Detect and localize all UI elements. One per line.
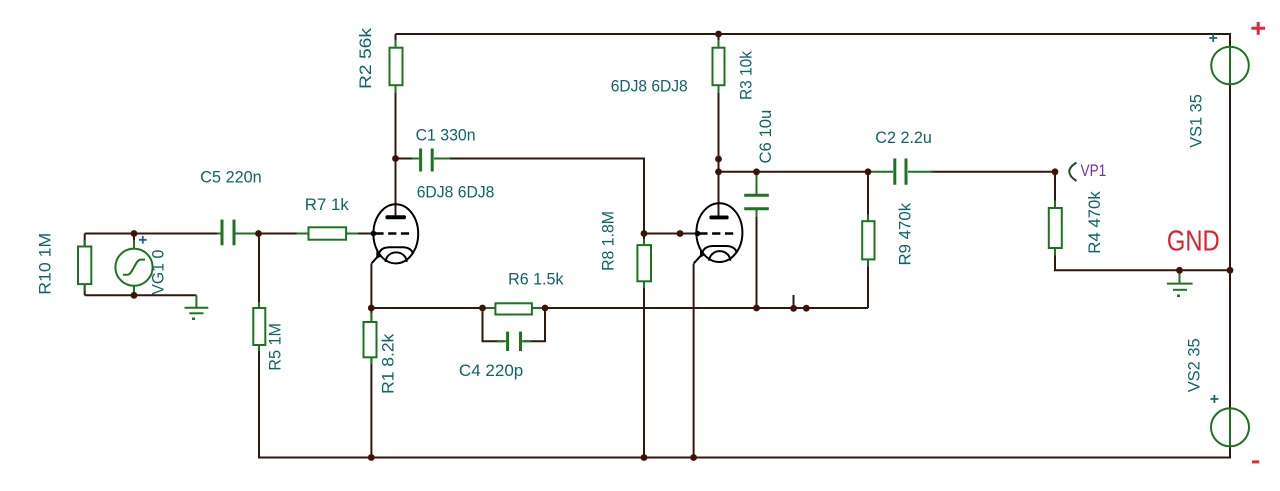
svg-text:C2 2.2u: C2 2.2u: [875, 128, 932, 147]
svg-text:VP1: VP1: [1081, 161, 1107, 180]
svg-text:R7 1k: R7 1k: [305, 195, 349, 214]
svg-text:GND: GND: [1167, 225, 1220, 257]
svg-text:C1 330n: C1 330n: [416, 125, 476, 144]
svg-text:C6 10u: C6 10u: [756, 110, 775, 164]
svg-text:VS2 35: VS2 35: [1185, 338, 1204, 392]
svg-text:C5 220n: C5 220n: [200, 167, 261, 186]
svg-text:R9 470k: R9 470k: [896, 202, 915, 265]
svg-text:R5 1M: R5 1M: [266, 323, 285, 371]
svg-text:R8 1.8M: R8 1.8M: [599, 211, 618, 271]
svg-text:6DJ8 6DJ8: 6DJ8 6DJ8: [417, 182, 495, 201]
svg-text:R6 1.5k: R6 1.5k: [508, 269, 564, 288]
svg-text:VG1 0: VG1 0: [149, 250, 168, 295]
svg-text:R3 10k: R3 10k: [737, 51, 756, 100]
svg-text:VS1 35: VS1 35: [1187, 94, 1206, 148]
svg-text:6DJ8 6DJ8: 6DJ8 6DJ8: [611, 76, 688, 95]
svg-text:R2 56k: R2 56k: [356, 27, 375, 89]
svg-text:C4 220p: C4 220p: [459, 361, 523, 380]
svg-text:R10 1M: R10 1M: [36, 233, 55, 295]
svg-text:R1 8.2k: R1 8.2k: [379, 333, 398, 394]
svg-text:R4 470k: R4 470k: [1085, 191, 1104, 254]
